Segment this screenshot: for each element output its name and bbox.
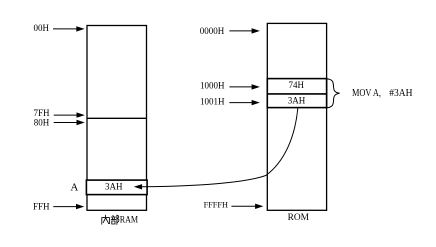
arrow 1001H	[229, 102, 253, 104]
ROM cell divider	[267, 93, 326, 95]
svg-text:#3AH: #3AH	[389, 88, 412, 99]
wire: curved transfer line from ROM 3AH cell to RAM 3AH cell	[142, 108, 298, 187]
RAM box	[87, 26, 147, 211]
svg-text:7FH: 7FH	[33, 108, 50, 118]
arrow 1000H	[229, 86, 253, 88]
brace for MOV operand bytes	[327, 79, 340, 108]
svg-text:ROM: ROM	[288, 213, 310, 223]
glyph 内	[102, 215, 110, 224]
svg-text:74H: 74H	[289, 80, 305, 90]
svg-text:FFH: FFH	[33, 202, 50, 212]
arrow 0000H	[229, 30, 253, 32]
svg-text:MOV A,: MOV A,	[352, 88, 381, 99]
arrow FFH	[53, 206, 77, 208]
RAM cell 3AH box	[86, 180, 147, 195]
ROM box	[267, 23, 326, 210]
arrow FFFFH	[231, 205, 256, 207]
RAM caption 内部RAM	[102, 215, 119, 224]
arrow 80H	[54, 122, 78, 124]
RAM divider line 7FH/80H	[87, 117, 147, 119]
svg-text:80H: 80H	[34, 118, 50, 128]
svg-text:1001H: 1001H	[200, 97, 225, 107]
svg-text:RAM: RAM	[120, 215, 138, 225]
svg-text:00H: 00H	[33, 23, 49, 33]
svg-text:1000H: 1000H	[200, 81, 225, 91]
glyph 部	[111, 215, 119, 224]
ROM cells box (74H/3AH)	[267, 79, 326, 108]
arrow 00H	[53, 28, 78, 30]
arrow 7FH	[54, 114, 78, 116]
svg-text:3AH: 3AH	[105, 181, 123, 191]
svg-text:0000H: 0000H	[200, 26, 225, 36]
svg-text:FFFFH: FFFFH	[204, 201, 228, 210]
arrowhead into RAM cell	[134, 184, 142, 189]
svg-text:3AH: 3AH	[288, 96, 306, 106]
svg-text:A: A	[70, 182, 78, 194]
